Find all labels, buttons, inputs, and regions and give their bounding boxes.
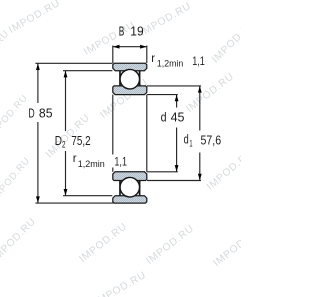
- ext line d1 top: [147, 85, 201, 87]
- svg-text:1: 1: [189, 139, 192, 150]
- ext line D2 bottom: [63, 195, 112, 197]
- D arrow bottom: [36, 196, 40, 203]
- svg-text:IMPOD.RU: IMPOD.RU: [184, 71, 236, 115]
- svg-text:IMPOD.RU: IMPOD.RU: [0, 216, 38, 264]
- svg-text:1,1: 1,1: [114, 156, 127, 168]
- svg-text:IMPOD.RU: IMPOD.RU: [0, 28, 12, 76]
- svg-text:r: r: [151, 53, 155, 65]
- d1 arrow top: [198, 86, 202, 93]
- ext line D2 top: [63, 70, 112, 72]
- D2 dimension line upper: [65, 71, 67, 131]
- svg-text:IMPOD.RU: IMPOD.RU: [210, 17, 241, 65]
- groove rim right (top section): [139, 71, 141, 86]
- svg-text:57,6: 57,6: [201, 133, 222, 147]
- bore gap line left (lower part): [112, 168, 114, 172]
- svg-text:IMPOD.RU: IMPOD.RU: [77, 221, 129, 265]
- D2 arrow bottom: [64, 189, 68, 196]
- bore gap line right: [146, 95, 148, 172]
- svg-text:2: 2: [62, 140, 66, 151]
- inner ring (bottom section): [113, 172, 147, 181]
- d dimension line upper: [176, 95, 178, 108]
- outer ring (top section): [113, 63, 147, 70]
- groove rim left (top section): [119, 71, 121, 86]
- groove rim right (bottom section): [139, 181, 141, 196]
- D2 dimension line lower: [65, 151, 67, 195]
- inner ring (top section): [113, 86, 147, 95]
- arrowheads: [36, 45, 202, 203]
- d arrow bottom: [175, 165, 179, 172]
- svg-text:IMPOD.RU: IMPOD.RU: [138, 1, 193, 39]
- D dimension line lower: [37, 122, 39, 203]
- B dimension line: [113, 46, 146, 48]
- svg-text:IMPOD.RU: IMPOD.RU: [0, 93, 30, 140]
- svg-text:IMPOD.RU: IMPOD.RU: [211, 225, 241, 269]
- bearing outline group: [113, 63, 147, 203]
- ball (top section): [120, 69, 140, 89]
- ext line d1 bottom: [147, 180, 201, 182]
- D2 arrow top: [64, 71, 68, 78]
- svg-text:IMPOD.RU: IMPOD.RU: [0, 155, 33, 203]
- svg-text:1,2min: 1,2min: [157, 59, 183, 70]
- d1 dimension line upper: [199, 86, 201, 130]
- ext line D bottom: [35, 202, 113, 204]
- d dimension line lower: [176, 128, 178, 172]
- B ext left: [112, 46, 114, 64]
- svg-text:1,1: 1,1: [192, 56, 205, 68]
- svg-text:D: D: [28, 106, 34, 120]
- balls: [120, 69, 140, 197]
- B ext right: [146, 46, 148, 64]
- ext line d top: [147, 94, 178, 96]
- B arrow left: [113, 45, 120, 49]
- d arrow top: [175, 95, 179, 102]
- svg-text:IMPOD.RU: IMPOD.RU: [82, 20, 137, 58]
- svg-text:IMPOD.RU: IMPOD.RU: [93, 270, 148, 297]
- dimension texts: [28, 25, 221, 170]
- groove rim left (bottom section): [119, 181, 121, 196]
- svg-text:IMPOD.RU: IMPOD.RU: [205, 147, 241, 192]
- d1 arrow bottom: [198, 174, 202, 181]
- svg-text:IMPOD.RU: IMPOD.RU: [7, 0, 62, 36]
- svg-text:IMPOD.RU: IMPOD.RU: [144, 223, 196, 267]
- ext line d bottom: [147, 171, 178, 173]
- groove rim bars: [120, 71, 140, 195]
- svg-text:85: 85: [39, 106, 53, 120]
- D dimension line upper: [37, 64, 39, 103]
- D arrow top: [36, 63, 40, 70]
- svg-text:d: d: [184, 133, 189, 147]
- thin lines: extensions and dimension lines: [35, 46, 201, 204]
- svg-text:B: B: [119, 25, 125, 39]
- B arrow right: [140, 45, 147, 49]
- svg-text:d: d: [161, 110, 167, 124]
- bore gap line left (upper part): [112, 95, 114, 155]
- svg-text:r: r: [73, 153, 77, 165]
- svg-text:45: 45: [171, 110, 185, 124]
- svg-text:1,2min: 1,2min: [78, 159, 105, 170]
- svg-text:19: 19: [130, 25, 143, 39]
- svg-text:75,2: 75,2: [71, 134, 90, 148]
- ext line D top: [35, 62, 112, 64]
- outer ring (bottom section): [113, 196, 147, 203]
- d1 dimension line lower: [199, 153, 201, 181]
- ball (bottom section): [120, 177, 140, 197]
